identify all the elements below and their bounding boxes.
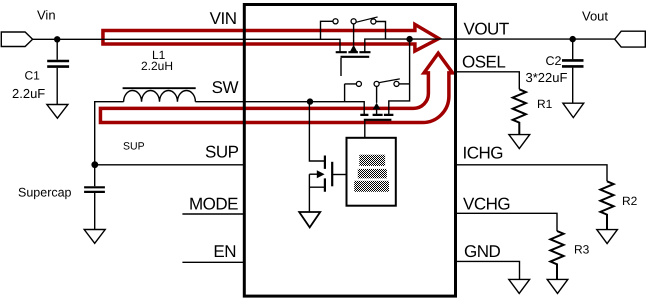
svg-text:SUP: SUP — [123, 141, 145, 153]
svg-text:SW: SW — [212, 78, 239, 97]
svg-text:3*22uF: 3*22uF — [526, 70, 568, 85]
svg-text:C2: C2 — [546, 54, 562, 68]
svg-text:Vout: Vout — [582, 9, 608, 24]
svg-text:MODE: MODE — [189, 194, 238, 213]
svg-text:ICHG: ICHG — [463, 144, 504, 163]
svg-text:VCHG: VCHG — [463, 194, 510, 213]
svg-text:2.2uF: 2.2uF — [12, 86, 45, 101]
svg-text:R3: R3 — [574, 243, 590, 257]
svg-text:R1: R1 — [537, 97, 553, 111]
svg-text:GND: GND — [464, 242, 501, 261]
svg-text:Vin: Vin — [37, 8, 56, 23]
svg-text:R2: R2 — [622, 194, 638, 208]
svg-text:VIN: VIN — [210, 9, 237, 28]
svg-text:C1: C1 — [25, 69, 41, 83]
svg-text:EN: EN — [213, 242, 236, 261]
svg-text:SUP: SUP — [205, 142, 239, 161]
svg-text:Supercap: Supercap — [18, 186, 72, 200]
svg-text:VOUT: VOUT — [464, 20, 509, 39]
svg-text:OSEL: OSEL — [462, 53, 505, 72]
svg-text:2.2uH: 2.2uH — [141, 59, 173, 73]
